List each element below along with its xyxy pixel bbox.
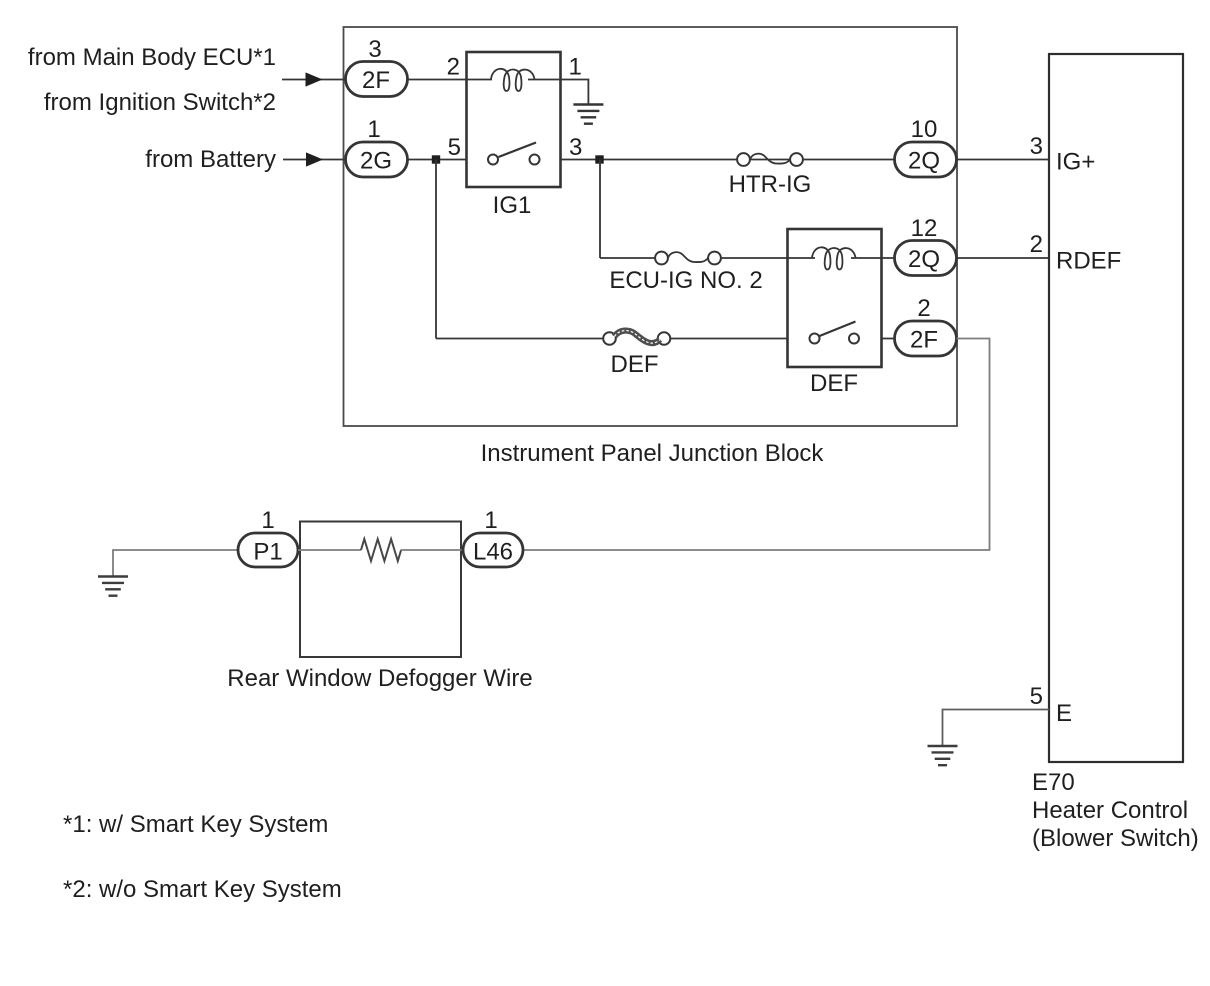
- svg-text:1: 1: [261, 507, 274, 534]
- svg-text:IG1: IG1: [493, 192, 532, 219]
- wire: fusible link to DEF relay switch: [671, 338, 788, 340]
- component E70 box: [1049, 54, 1183, 762]
- connector 2Q (pin 12): [895, 241, 957, 276]
- connector 2Q (pin 10): [895, 142, 957, 177]
- svg-text:3: 3: [569, 134, 582, 161]
- svg-text:1: 1: [367, 116, 380, 143]
- svg-text:RDEF: RDEF: [1056, 248, 1121, 275]
- svg-text:Rear Window Defogger Wire: Rear Window Defogger Wire: [227, 665, 532, 692]
- svg-text:2Q: 2Q: [908, 246, 940, 273]
- svg-text:2G: 2G: [360, 148, 392, 175]
- arrow into 2G: [306, 152, 323, 166]
- wire: DEF coil lead right: [851, 257, 894, 259]
- svg-text:5: 5: [448, 134, 461, 161]
- wire: DEF switch to 2F: [882, 338, 895, 340]
- svg-text:12: 12: [911, 215, 938, 242]
- connector P1: [238, 533, 298, 567]
- svg-text:from Main Body ECU*1: from Main Body ECU*1: [28, 44, 276, 71]
- svg-text:*2: w/o Smart Key System: *2: w/o Smart Key System: [63, 876, 342, 903]
- wire: P1 to resistor: [298, 549, 361, 551]
- svg-text:2F: 2F: [910, 327, 938, 354]
- svg-text:2: 2: [447, 54, 460, 81]
- connector L46: [463, 533, 523, 567]
- ground: IG1 coil: [573, 105, 603, 124]
- Rear Window Defogger Wire box: [300, 522, 461, 658]
- svg-text:L46: L46: [473, 539, 513, 566]
- svg-text:3: 3: [368, 36, 381, 63]
- svg-text:1: 1: [569, 54, 582, 81]
- wire: ground lead from IG1 pin 1: [561, 80, 589, 105]
- svg-text:E70: E70: [1032, 769, 1075, 796]
- svg-text:from Ignition Switch*2: from Ignition Switch*2: [44, 89, 276, 116]
- svg-text:from Battery: from Battery: [145, 146, 276, 173]
- svg-text:Instrument Panel Junction Bloc: Instrument Panel Junction Block: [481, 440, 825, 467]
- wire: 2G to IG1 switch: [408, 159, 468, 161]
- wire: input to 2G: [283, 159, 346, 161]
- wire: input to 2F: [282, 79, 346, 81]
- Instrument Panel Junction Block box: [344, 27, 958, 426]
- wire: 2F to IG1: [408, 79, 468, 81]
- svg-text:2Q: 2Q: [908, 148, 940, 175]
- svg-text:(Blower Switch): (Blower Switch): [1032, 825, 1199, 852]
- svg-text:5: 5: [1030, 683, 1043, 710]
- svg-text:2F: 2F: [362, 67, 390, 94]
- node: junction below 2G wire: [432, 155, 440, 163]
- relay DEF box: [788, 229, 882, 367]
- coil of relay DEF: [812, 247, 856, 269]
- fuse HTR-IG: [737, 153, 803, 166]
- svg-text:2: 2: [1030, 231, 1043, 258]
- svg-text:Heater Control: Heater Control: [1032, 797, 1188, 824]
- wire: IG1 coil lead left: [467, 79, 493, 81]
- relay IG1 box: [467, 52, 561, 187]
- svg-text:3: 3: [1030, 133, 1043, 160]
- wire: to ECU-IG fuse: [600, 257, 655, 259]
- svg-text:E: E: [1056, 700, 1072, 727]
- wire: to DEF fusible link: [436, 338, 603, 340]
- wire: vertical from 2G junction down to DEF row: [435, 160, 437, 339]
- svg-text:ECU-IG NO. 2: ECU-IG NO. 2: [609, 267, 762, 294]
- connector 2F: [346, 62, 408, 97]
- node: junction at x600: [595, 155, 603, 163]
- fuse ECU-IG NO. 2: [655, 252, 721, 265]
- ground: E70 pin 5: [928, 746, 958, 765]
- wire: E70 pin 5 to ground: [943, 710, 1050, 746]
- svg-text:10: 10: [911, 116, 938, 143]
- svg-text:DEF: DEF: [810, 370, 858, 397]
- switch of relay IG1: [488, 155, 498, 165]
- wire: 2F down to rear defogger L46 (gray): [523, 339, 990, 551]
- wire: 2Q to E70 RDEF: [957, 257, 1050, 259]
- wire: 2Q to E70 IG+: [957, 159, 1050, 161]
- resistor: defogger wire element: [361, 539, 401, 561]
- switch of relay DEF: [810, 334, 820, 344]
- svg-text:HTR-IG: HTR-IG: [729, 171, 812, 198]
- fusible link DEF: [603, 332, 670, 345]
- svg-text:*1: w/ Smart Key System: *1: w/ Smart Key System: [63, 811, 328, 838]
- svg-text:P1: P1: [253, 539, 282, 566]
- svg-text:1: 1: [484, 507, 497, 534]
- wire: resistor to L46: [401, 549, 463, 551]
- svg-text:2: 2: [917, 295, 930, 322]
- svg-text:IG+: IG+: [1056, 149, 1095, 176]
- wire: DEF coil lead left: [788, 257, 816, 259]
- svg-text:DEF: DEF: [611, 351, 659, 378]
- wire: vertical from junction to ECU-IG row: [599, 160, 601, 259]
- wire: IG1 pin3 to 2Q: [561, 159, 895, 161]
- ground: rear defogger P1 (gray wire): [113, 550, 238, 576]
- coil of relay IG1: [491, 69, 535, 91]
- wire: IG1 coil lead right: [528, 79, 561, 81]
- wire: fuse to DEF relay coil: [721, 257, 788, 259]
- arrow into 2F: [306, 72, 323, 86]
- connector 2F (pin 2): [895, 321, 957, 356]
- connector 2G: [346, 142, 408, 177]
